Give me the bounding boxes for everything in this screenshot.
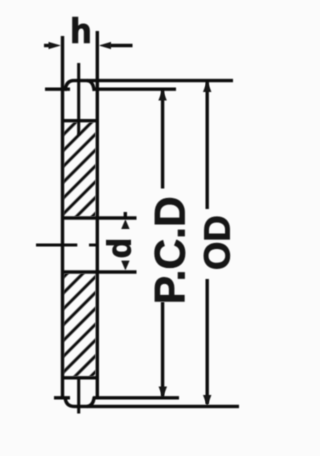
- svg-text:h: h: [71, 12, 92, 50]
- svg-text:d: d: [101, 238, 138, 258]
- svg-text:OD: OD: [197, 215, 238, 270]
- svg-text:P.C.D: P.C.D: [148, 196, 195, 304]
